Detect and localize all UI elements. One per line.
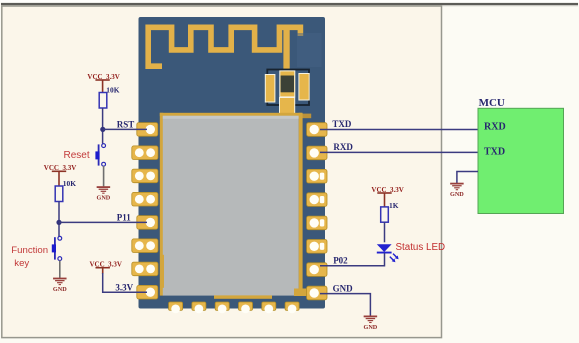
- matching component outline: [267, 70, 309, 106]
- svg-text:1K: 1K: [389, 201, 399, 210]
- wire resistor to button: [102, 108, 104, 144]
- svg-text:RST: RST: [117, 119, 135, 129]
- RF shield can: [163, 116, 299, 296]
- wire RXD (module to MCU): [320, 151, 478, 153]
- gold trace left of shield bottom: [160, 255, 164, 288]
- wire TXD (module to MCU): [320, 129, 478, 131]
- silkscreen patch (light): [297, 33, 322, 67]
- ground GND (MCU): [450, 184, 464, 190]
- gold trace right of shield bottom: [294, 289, 307, 297]
- svg-text:10K: 10K: [63, 179, 76, 188]
- power VCC_3.3V (reset pull-up): [95, 80, 109, 93]
- wire RST: [103, 128, 147, 130]
- power VCC_3.3V (3.3V supply): [96, 268, 110, 274]
- bottom castellated pads (6): [169, 302, 300, 310]
- shield gold rim: [160, 113, 163, 296]
- ESP module U1: [132, 17, 327, 313]
- svg-text:TXD: TXD: [332, 119, 352, 129]
- svg-text:Function: Function: [11, 245, 48, 256]
- svg-text:VCC_3.3V: VCC_3.3V: [87, 73, 119, 81]
- svg-text:GND: GND: [97, 195, 111, 202]
- svg-text:GND: GND: [53, 286, 67, 293]
- ground GND (module bottom): [364, 316, 378, 322]
- svg-text:RXD: RXD: [333, 142, 353, 152]
- svg-text:P11: P11: [117, 212, 132, 222]
- wire button to ground: [103, 166, 105, 186]
- resistor R1 10K: [99, 85, 119, 108]
- power VCC_3.3V (status LED): [377, 193, 391, 207]
- node RST junction: [100, 127, 105, 132]
- power VCC_3.3V (function key pull-up): [52, 171, 66, 186]
- right castellated pads (8): [307, 123, 327, 300]
- pushbutton S1 (Reset): [95, 144, 105, 166]
- wire GND (module): [320, 294, 370, 317]
- gold trace below shield: [214, 295, 272, 298]
- trace right of component: [295, 114, 312, 119]
- ground GND (reset): [97, 187, 111, 193]
- svg-text:TXD: TXD: [484, 147, 505, 158]
- matching component right pad: [299, 74, 309, 101]
- LED D1 (status): [377, 244, 399, 262]
- svg-text:GND: GND: [333, 283, 354, 293]
- matching component bottom pad: [280, 98, 295, 115]
- svg-text:Reset: Reset: [64, 150, 90, 161]
- svg-text:Status LED: Status LED: [396, 242, 446, 253]
- svg-text:VCC_3.3V: VCC_3.3V: [90, 260, 122, 268]
- schematic sheet frame: [2, 6, 442, 338]
- svg-text:VCC_3.3V: VCC_3.3V: [371, 186, 403, 194]
- MCU U2: [478, 97, 564, 214]
- module PCB body: [139, 17, 326, 309]
- left castellated pads (8): [132, 123, 158, 299]
- wire 3.3V: [103, 273, 147, 292]
- wire button to ground: [59, 260, 61, 278]
- svg-text:RXD: RXD: [484, 121, 506, 132]
- svg-text:GND: GND: [364, 324, 378, 331]
- top strip: [0, 0, 579, 3]
- svg-text:10K: 10K: [106, 85, 119, 94]
- matching component body: [280, 71, 295, 97]
- wire resistor to button: [58, 202, 60, 237]
- PCB antenna (meander trace): [148, 27, 300, 66]
- resistor R2 10K: [55, 179, 76, 202]
- wire LED to P02: [320, 253, 385, 266]
- svg-text:MCU: MCU: [479, 97, 505, 109]
- svg-text:GND: GND: [450, 191, 464, 198]
- wire resistor to LED: [384, 222, 386, 242]
- ground GND (function key): [53, 279, 67, 285]
- svg-text:key: key: [14, 258, 29, 269]
- svg-text:3.3V: 3.3V: [115, 282, 133, 292]
- node P11 junction: [56, 220, 61, 225]
- svg-text:VCC_3.3V: VCC_3.3V: [44, 164, 76, 172]
- resistor R3 1K: [381, 201, 399, 222]
- matching component left pad: [265, 75, 275, 103]
- wire MCU to ground: [457, 172, 478, 184]
- wire P11: [59, 221, 147, 223]
- antenna feed trace: [283, 30, 289, 72]
- pushbutton S2 (Function key): [52, 236, 62, 260]
- window top rule: [1, 3, 578, 5]
- svg-text:P02: P02: [333, 256, 348, 266]
